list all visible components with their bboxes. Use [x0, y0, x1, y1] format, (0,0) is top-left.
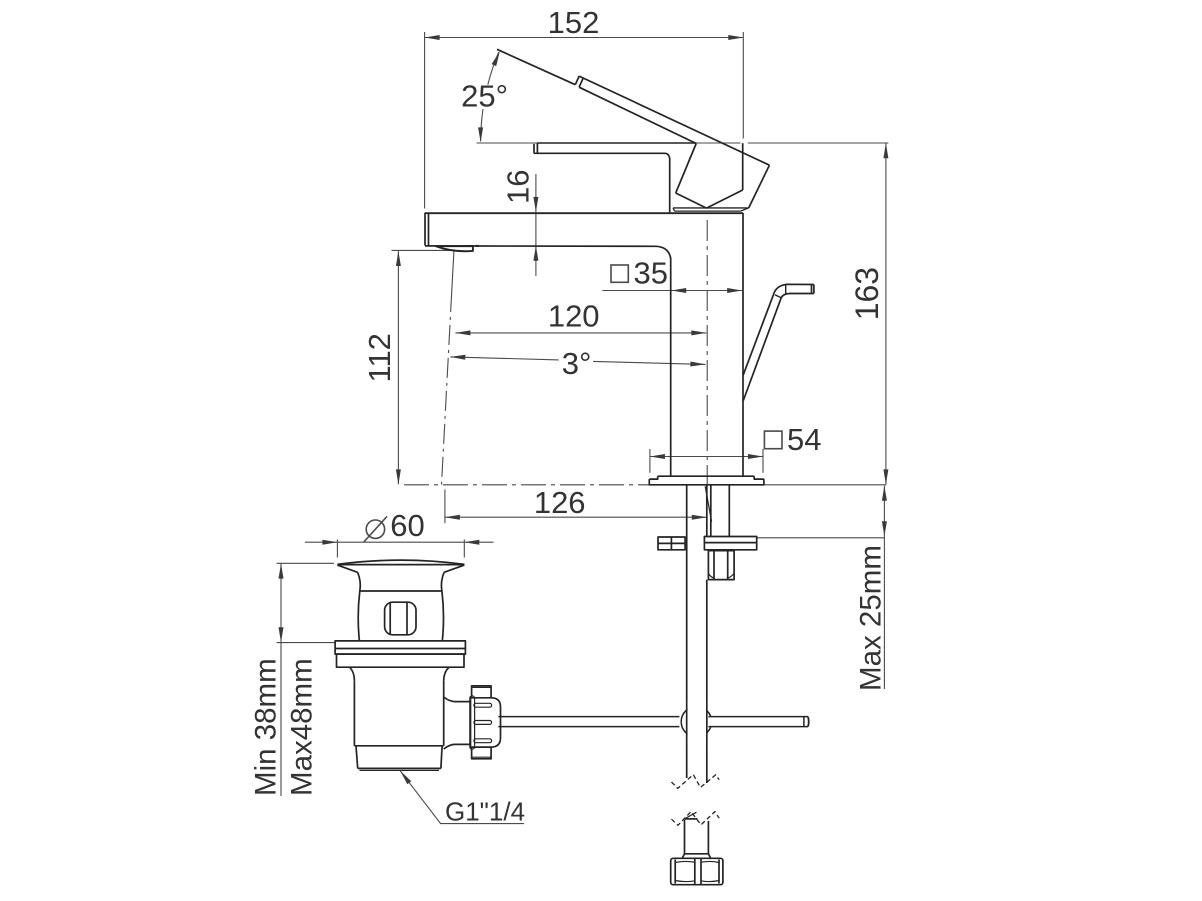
- coupling nut bottom tab inner line: [472, 756, 492, 758]
- arrow dim 3deg left: [450, 355, 465, 360]
- drain neck right: [441, 572, 444, 591]
- svg-text:Min 38mm: Min 38mm: [250, 658, 283, 796]
- aerator outlet wedge: [436, 246, 473, 251]
- lever blade closed: underside + body front face: [534, 153, 670, 212]
- arrow dim 112 bottom: [396, 469, 401, 484]
- lever blade closed: front cap inner: [536, 143, 538, 153]
- arrow dim 120 left: [455, 330, 470, 335]
- water stream 3deg line solid part: [452, 251, 454, 292]
- tailpiece left edge: [356, 746, 358, 769]
- ext line max25 bottom (washer plate): [757, 537, 885, 539]
- square symbol for 54: [764, 431, 782, 449]
- coupling nut thread slot 3: [474, 739, 492, 743]
- pull rod body mask: [688, 700, 706, 745]
- svg-text:120: 120: [548, 299, 600, 334]
- drain body shoulder left: [350, 667, 355, 681]
- supply nut outline: [671, 858, 723, 884]
- arrow dim dia60 left: [322, 540, 337, 545]
- arrow dim 35 right: [727, 288, 742, 293]
- stub collar line: [685, 853, 709, 855]
- linkage rod end cap: [807, 717, 810, 727]
- arc dim 25deg lower segment: [481, 109, 483, 141]
- tailpiece right edge: [441, 746, 442, 769]
- arrow dim 163 top: [883, 143, 888, 158]
- arrow dim min38max48 top: [279, 564, 284, 579]
- arrow dim max25 top: [882, 486, 887, 501]
- threaded shank left edge: [710, 485, 712, 536]
- head base ring top: [673, 207, 749, 209]
- mounting washer plate step line: [704, 542, 756, 544]
- drain linkage ball joint: [681, 707, 711, 737]
- drain flange cone left: [337, 565, 357, 572]
- spout underside + inner corner + column front edge: [425, 246, 671, 476]
- dim 152 line: [425, 37, 744, 39]
- ext line 112 top (aerator outlet): [392, 249, 453, 251]
- drain flange underside chord: [337, 564, 464, 566]
- water stream 3deg line dash-dot part: [442, 292, 452, 485]
- lever blade closed: front cap outer: [533, 144, 535, 153]
- dim 16 vertical line: [535, 174, 537, 276]
- pull rod left edge: [686, 485, 688, 778]
- ext line min38 top: [277, 562, 334, 564]
- arrow dim 35 left: [671, 288, 686, 293]
- side lever: bottom bar edge + elbow inner: [743, 294, 814, 401]
- lock ring upper: [335, 641, 465, 654]
- supply nut facet center-left: [694, 859, 696, 884]
- arrow dim 16 upper: [533, 197, 538, 212]
- lever blade raised: underside: [579, 87, 696, 143]
- dim 163 vertical line: [885, 143, 887, 484]
- side lever: end cap inner tick: [811, 285, 813, 294]
- ext line dia60 left: [336, 540, 338, 558]
- threaded stub torn edge diagonal: [685, 812, 697, 819]
- dim 112 vertical line: [397, 251, 399, 484]
- svg-text:16: 16: [501, 170, 536, 204]
- drain neck shoulder line: [360, 590, 442, 592]
- threaded stub top edge: [685, 818, 698, 820]
- drain flange dome: [337, 560, 464, 564]
- mounting nut facet right: [727, 551, 729, 580]
- counter reference line right solid: [764, 484, 886, 486]
- arrow dim max25 bottom: [882, 521, 887, 536]
- drain upper barrel right: [442, 591, 444, 641]
- arrow dim 3deg right: [690, 362, 705, 367]
- dim 35 line with left leader: [602, 290, 742, 292]
- coupling nut left rim capsule: [470, 696, 475, 749]
- head base ring bottom: [675, 210, 741, 212]
- coupling nut top tab: [472, 686, 492, 698]
- arrow dim 120 right: [691, 330, 706, 335]
- arrow leader G1-1/4: [400, 771, 411, 784]
- lever blade raised: front cap line 2: [579, 78, 583, 87]
- head base ring left side: [673, 208, 675, 211]
- side outlet bottom: [444, 744, 471, 749]
- dim min38/max48 vertical line + text divider: [280, 563, 282, 796]
- lever blade raised: rear edge: [749, 165, 770, 208]
- lever blade raised: thin tip edge: [497, 49, 575, 84]
- lever blade closed: top edge: [537, 142, 696, 144]
- dim dia60 line: [305, 541, 494, 543]
- dim 54 line: [650, 456, 763, 458]
- ext/reference line horizontal y=143 (163 top + 25deg ref): [477, 142, 741, 144]
- horizontal linkage rod left segment top: [498, 716, 679, 718]
- base plate top surface: [658, 475, 755, 477]
- mounting nut outline: [708, 551, 734, 580]
- lever blade raised: top edge: [579, 76, 769, 165]
- arc dim 25deg upper segment: [488, 52, 499, 85]
- arrow dim 16 lower: [533, 246, 538, 261]
- head base ring right side: [741, 208, 749, 211]
- ext line max48 bottom: [277, 642, 336, 644]
- arrow dim dia60 right: [464, 540, 479, 545]
- shank thread lead diagonal: [705, 486, 711, 521]
- head cartridge: lower-right facet: [707, 190, 743, 208]
- square symbol for 35: [611, 265, 628, 282]
- base plate outer rim: [649, 479, 764, 485]
- dim 120 line: [455, 332, 706, 334]
- drain body shoulder right: [444, 667, 449, 681]
- spout front cap outer: [424, 213, 426, 246]
- linkage rod end cap tick: [803, 717, 805, 727]
- tailpiece bottom rim: [360, 769, 440, 771]
- ext line 152 left (spout tip): [424, 32, 426, 209]
- tailpiece shoulder line: [354, 745, 443, 747]
- base plate right step: [754, 476, 764, 479]
- tailpiece bottom edge: [358, 767, 441, 769]
- horizontal linkage rod left segment bottom: [498, 726, 679, 728]
- stub collar flare right: [708, 854, 710, 858]
- ext line 126 left: [444, 490, 446, 524]
- svg-text:Max48mm: Max48mm: [286, 658, 319, 796]
- pull rod right edge lower: [706, 580, 708, 783]
- overflow window slot line left: [389, 603, 391, 635]
- pull rod right edge upper: [706, 485, 708, 536]
- arrow dim 54 right: [748, 454, 763, 459]
- svg-text:25°: 25°: [461, 79, 508, 114]
- svg-text:112: 112: [362, 333, 397, 382]
- coupling nut thread slot 1: [474, 703, 492, 707]
- supply nut right chamfer band: [718, 860, 720, 884]
- break squiggle lower (stub): [672, 812, 720, 826]
- mounting nut bottom chamfers: [708, 574, 734, 579]
- horseshoe washer mid line: [658, 542, 685, 544]
- leader line G1-1/4: [400, 771, 524, 824]
- head cartridge: rear vertical edge: [742, 143, 744, 190]
- head cartridge: front edge: [676, 144, 697, 194]
- svg-text:152: 152: [548, 5, 600, 40]
- side lever: bar joint tick: [785, 285, 787, 294]
- svg-text:60: 60: [390, 508, 424, 543]
- drain upper barrel left: [358, 591, 360, 641]
- arrow dim 152 left: [425, 35, 440, 40]
- break squiggle upper (rod): [672, 775, 720, 789]
- arrow dim 126 left: [445, 515, 460, 520]
- threaded shank right edge: [728, 485, 730, 536]
- arrow dim 25deg lower: [478, 127, 483, 142]
- horseshoe washer outline: [658, 537, 685, 550]
- supply nut left chamfer band: [674, 860, 676, 884]
- svg-text:3°: 3°: [562, 346, 592, 381]
- side outlet top: [444, 697, 471, 702]
- dim max25 vertical line + text leader: [883, 486, 885, 689]
- overflow window slot line right: [406, 603, 408, 635]
- svg-text:Max 25mm: Max 25mm: [855, 545, 888, 691]
- arrow dim 112 top: [396, 251, 401, 266]
- horizontal linkage rod right segment: [498, 717, 808, 727]
- lever blade raised: front cap line 1: [575, 76, 579, 85]
- supply nut facet center-right: [700, 859, 702, 884]
- svg-text:54: 54: [787, 422, 821, 457]
- ext line 152 right (body rear): [742, 32, 744, 139]
- arrow dim 25deg upper: [492, 51, 500, 66]
- centerline of faucet (dash-dot): [706, 220, 708, 487]
- ext line 54 left: [649, 449, 651, 473]
- ext line dia60 right: [463, 540, 465, 558]
- coupling nut thread slot 2: [474, 721, 492, 725]
- arrow dim 126 right: [692, 515, 707, 520]
- svg-text:35: 35: [633, 256, 667, 291]
- mounting nut facet left: [713, 551, 715, 580]
- threaded stub right edge: [707, 821, 709, 854]
- lock ring mid line: [335, 648, 465, 650]
- horseshoe washer inner edge: [670, 537, 672, 550]
- spout front cap inner: [428, 213, 430, 246]
- arrow dim 54 left: [650, 454, 665, 459]
- side lever (front view): top bar top edge + elbow outer: [743, 284, 814, 375]
- drain flange cone right: [444, 565, 464, 572]
- counter reference chain line (dash-dot): [404, 484, 649, 486]
- dim 3deg line right segment: [593, 361, 705, 364]
- arrow dim 152 right: [728, 35, 743, 40]
- supply nut facet chamfer arcs: [675, 861, 719, 881]
- drain lower barrel left: [353, 681, 355, 746]
- arrow dim 163 bottom: [883, 469, 888, 484]
- mounting washer plate: [704, 537, 756, 550]
- svg-text:163: 163: [849, 267, 885, 320]
- aerator tick: [475, 245, 479, 247]
- dim 3deg line left segment: [450, 357, 558, 360]
- coupling nut bottom tab: [472, 747, 492, 759]
- stub collar flare left: [683, 854, 685, 858]
- ext line 54 right: [762, 449, 764, 473]
- body top plane: [425, 212, 743, 214]
- coupling nut top tab inner line: [472, 686, 492, 688]
- drain lower barrel right: [443, 681, 445, 746]
- side lever: end cap outer: [813, 285, 815, 294]
- overflow window: [385, 602, 416, 635]
- head cartridge: lower-left facet: [676, 193, 707, 208]
- svg-text:G1"1/4: G1"1/4: [445, 797, 525, 827]
- svg-text:126: 126: [534, 485, 586, 520]
- diameter symbol slash: [364, 516, 387, 542]
- coupling nut body: [471, 698, 501, 747]
- side lever: elbow joint tick: [775, 295, 781, 298]
- dim 126 line: [445, 516, 707, 518]
- arrow dim min38max48 bottom: [279, 627, 284, 642]
- lock ring lower band: [337, 654, 465, 667]
- threaded stub left edge: [684, 820, 686, 854]
- body rear edge: [742, 213, 744, 477]
- drain neck left: [358, 572, 361, 591]
- base plate left step: [649, 476, 657, 479]
- diameter symbol circle: [366, 520, 384, 538]
